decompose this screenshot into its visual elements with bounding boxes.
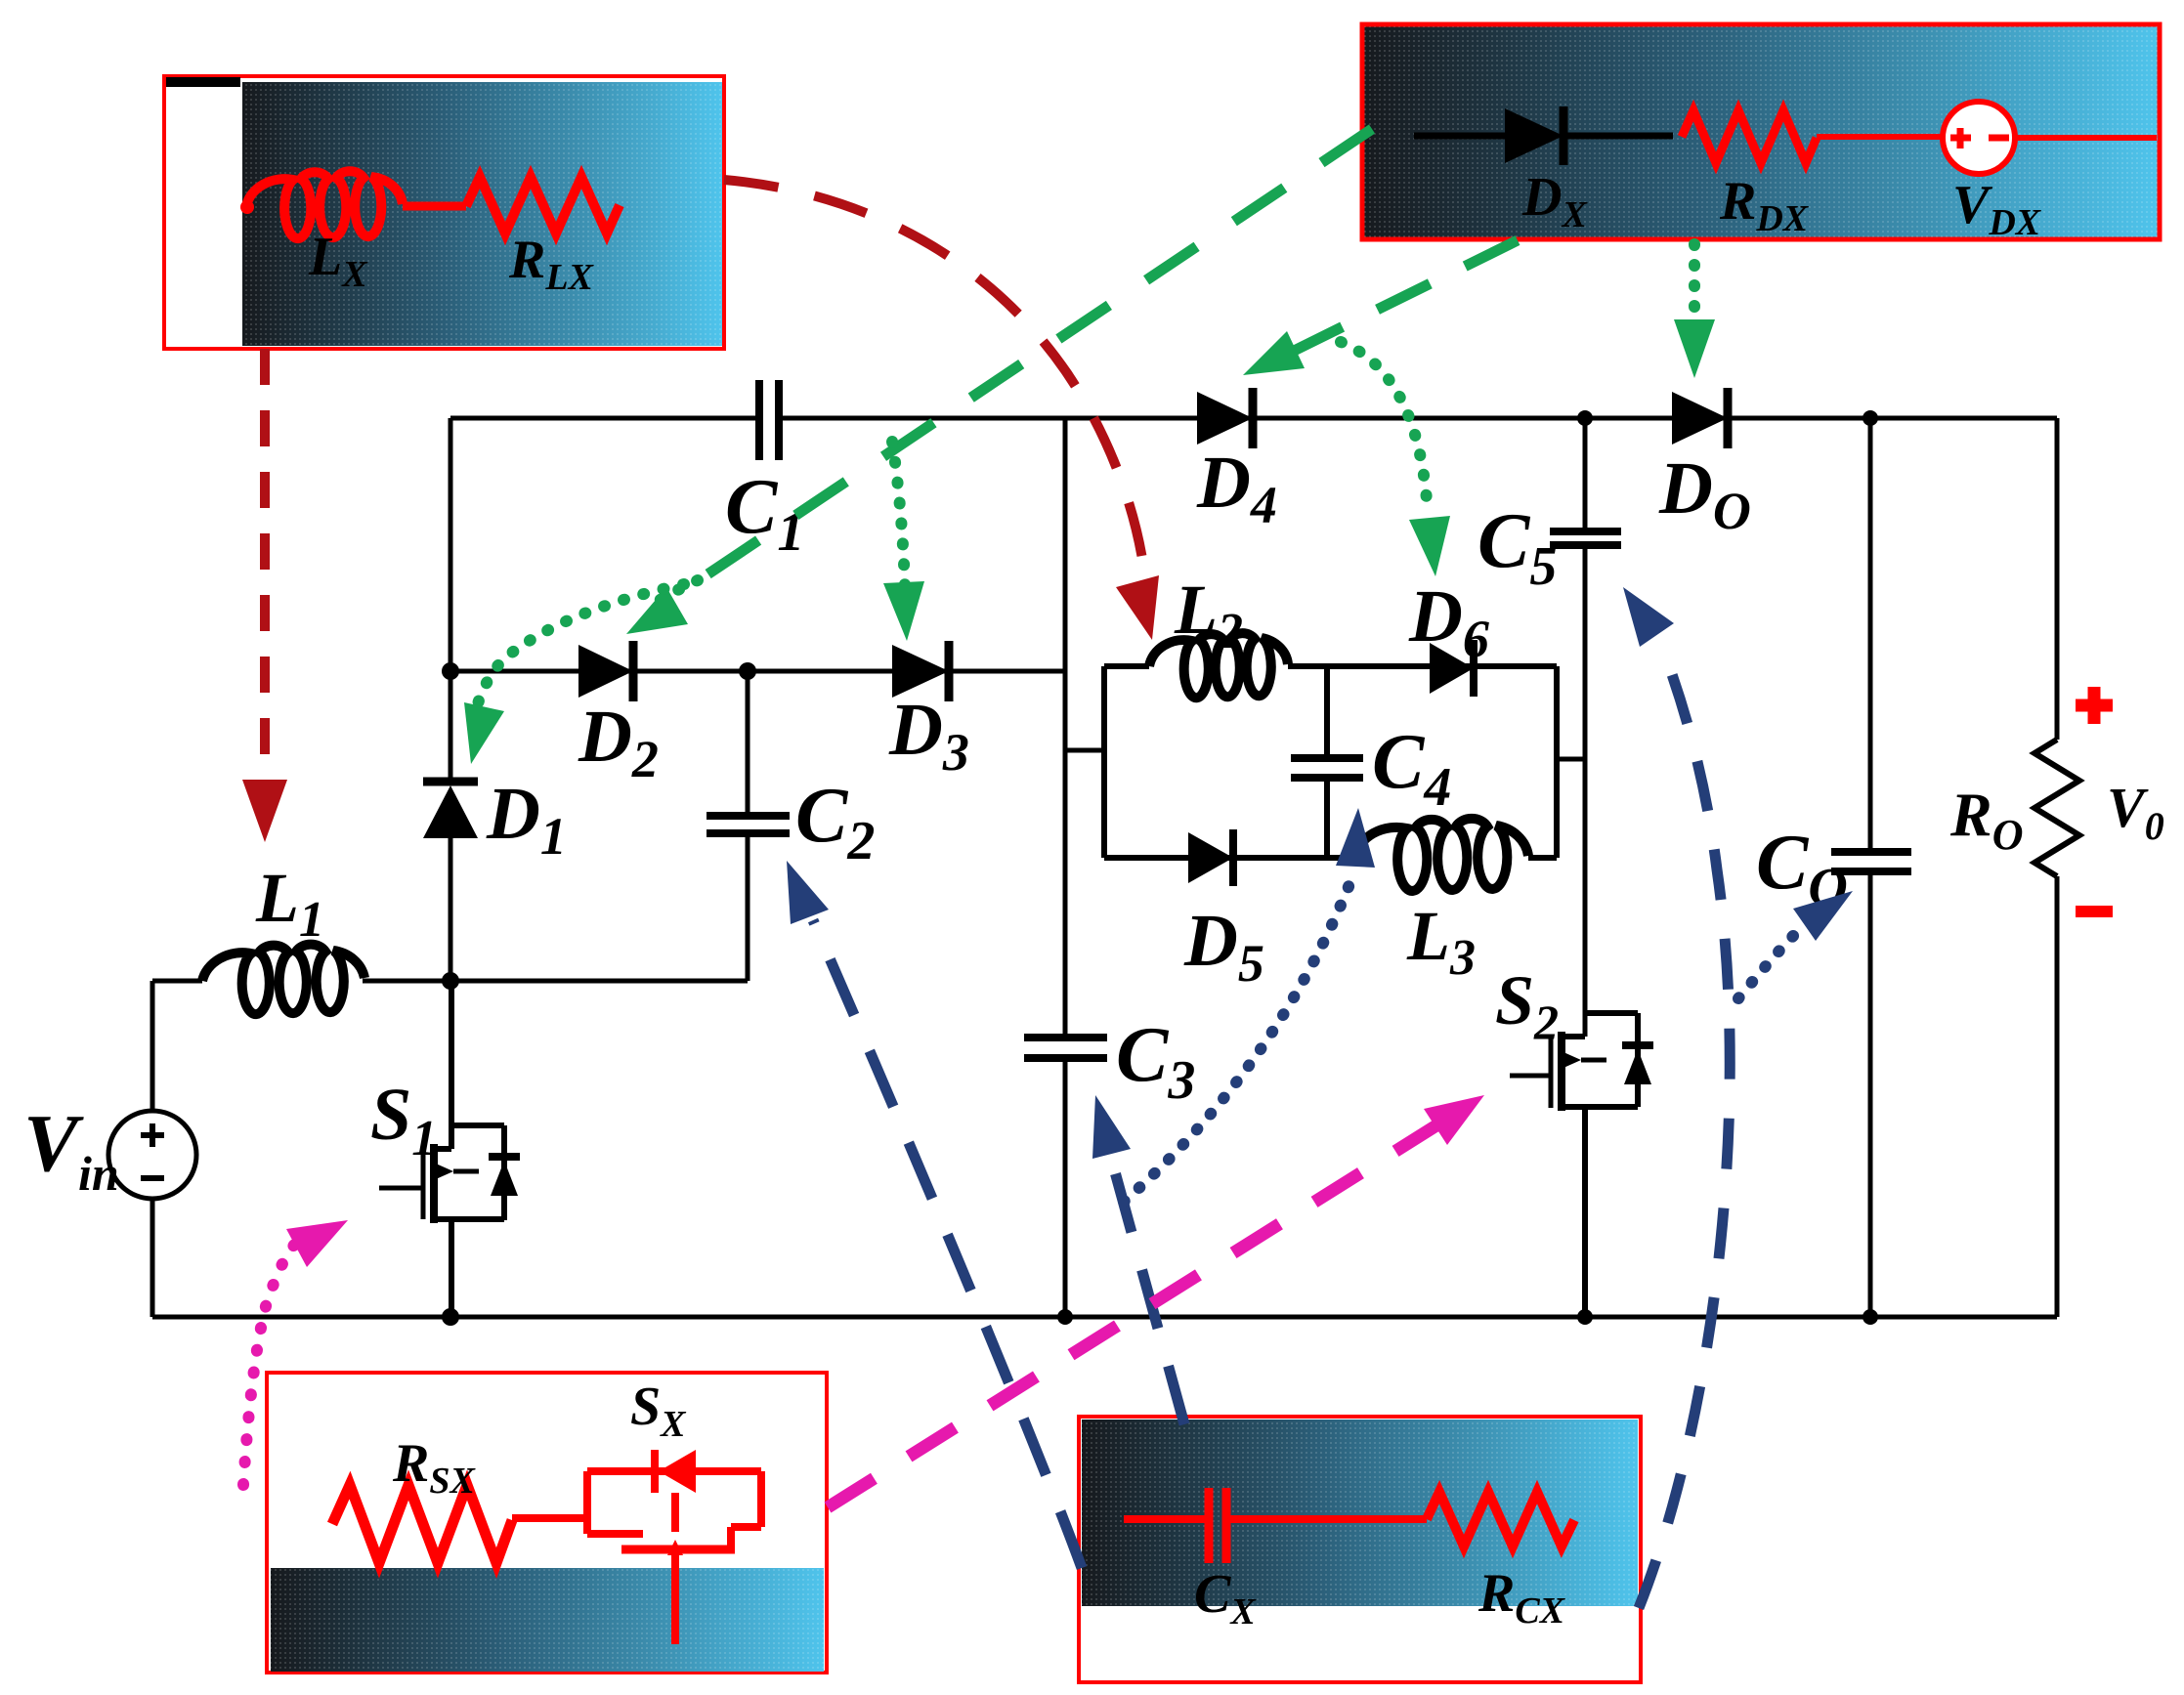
arrow green to D6 <box>1409 516 1450 576</box>
bottom rail wire <box>152 1315 2057 1320</box>
resistor RLX (red, in model box) <box>466 177 620 233</box>
inset box CX/RCX (bottom-center model box) <box>1079 1417 1641 1682</box>
arrow green to D1 <box>464 702 504 764</box>
svg-text:RO: RO <box>1949 780 2023 859</box>
wire stub block to C5/S2 line <box>1557 757 1585 762</box>
inductor L1 <box>202 945 364 1015</box>
block bottom wire <box>1104 855 1557 861</box>
C5/S2 vertical wire <box>1583 418 1588 1037</box>
inset box DX/RDX/VDX (top-right model box) <box>1362 24 2160 239</box>
wire stub middle vertical to L2 block <box>1065 748 1104 753</box>
dashed arrow dark red to L2 <box>724 180 1159 640</box>
node I (Co at bottom rail) <box>1863 1309 1878 1325</box>
dashed arrow navy to C5 <box>1623 587 1730 1608</box>
svg-text:D1: D1 <box>486 773 567 866</box>
svg-text:C3: C3 <box>1116 1012 1195 1111</box>
svg-text:Vin: Vin <box>23 1098 119 1201</box>
diode D5 (on block bottom wire) <box>1188 829 1233 886</box>
diode DX (black, in model box) <box>1414 106 1673 165</box>
Co branch vertical wire <box>1868 418 1873 1317</box>
minus sign output (red) <box>2076 906 2113 917</box>
diode DO (output diode on top rail) <box>1672 388 1728 448</box>
left cell left vertical wire <box>449 418 453 671</box>
dotted green branch to D3 <box>892 442 906 621</box>
inductor LX (red, in model box) <box>240 171 466 238</box>
node H (top rail to Co) <box>1863 410 1878 426</box>
wire D2/D3 row <box>450 669 1065 674</box>
diode D3 <box>892 641 949 701</box>
node D (S1 source at bottom rail) <box>442 1308 459 1326</box>
svg-text:L3: L3 <box>1406 897 1476 986</box>
inductor L2 <box>1149 633 1288 698</box>
svg-text:DO: DO <box>1658 447 1751 540</box>
node G (S2 source at bottom rail) <box>1577 1309 1593 1325</box>
node A (D2 anode junction) <box>442 662 459 680</box>
diode D4 (on top rail) <box>1197 388 1253 448</box>
node B (D2/D3 junction) <box>739 662 756 680</box>
svg-text:D4: D4 <box>1196 442 1277 534</box>
switch SX (red MOSFET with body diode) <box>587 1450 761 1644</box>
right edge wire with RO <box>2055 418 2060 1317</box>
diode D1 (vertical) <box>423 671 478 981</box>
resistor RCX (red, in model box) <box>1427 1492 1574 1547</box>
inset box SX/RSX (bottom-left model box) <box>267 1373 827 1673</box>
dashed magenta arrow to S2 <box>828 1095 1484 1507</box>
arrow green to D3 <box>883 581 924 641</box>
svg-text:C1: C1 <box>725 464 804 563</box>
capacitor C2 branch <box>707 671 790 981</box>
dotted green branch to D2 <box>657 580 698 602</box>
inset box LX/RLX (top-left model box) <box>164 76 724 349</box>
inductor L1 row wire <box>152 979 748 984</box>
dotted green branch to D1 <box>471 584 684 738</box>
dotted green branch to DO <box>1689 244 1700 313</box>
svg-text:L2: L2 <box>1174 571 1243 659</box>
top rail wire <box>450 416 2057 421</box>
source Vin <box>108 981 196 1317</box>
transistor S1 (MOSFET with body diode) <box>379 981 520 1317</box>
dashed arrow navy to C3 <box>1092 1095 1184 1424</box>
dotted green branch to D6 <box>1341 342 1428 513</box>
svg-text:D5: D5 <box>1183 900 1264 993</box>
svg-text:D3: D3 <box>888 689 969 782</box>
inductor L3 <box>1354 819 1528 891</box>
resistor RDX (red, in model box) <box>1682 110 1817 163</box>
capacitor C3 <box>1024 1038 1107 1058</box>
dashed line green from DX box to D4 <box>1280 240 1518 358</box>
svg-text:C4: C4 <box>1372 719 1451 818</box>
diode D6 (on block top wire) <box>1430 640 1474 697</box>
arrow navy to CO <box>1793 891 1853 941</box>
dotted magenta arrow to S1 <box>243 1220 348 1485</box>
capacitor CO <box>1831 852 1911 871</box>
L2/C4/D5/L3 block left vertical <box>1101 666 1107 858</box>
svg-text:D2: D2 <box>578 696 659 788</box>
source VDX (red circle +/-) <box>1943 102 2157 174</box>
capacitor C4 branch <box>1291 666 1363 858</box>
plus sign output (red) <box>2076 687 2113 724</box>
middle vertical wire with C3 <box>1063 418 1068 1317</box>
node C (L1/S1/D1 junction) <box>442 972 459 990</box>
svg-text:V0: V0 <box>2107 776 2164 848</box>
dotted navy branch to CO <box>1738 926 1803 998</box>
svg-text:S2: S2 <box>1495 961 1559 1049</box>
svg-text:L1: L1 <box>255 859 324 948</box>
dashed arrow dark red to L1 <box>242 349 287 842</box>
svg-text:C2: C2 <box>795 773 875 871</box>
svg-text:C5: C5 <box>1477 498 1557 597</box>
wire red to VDX <box>1817 134 1943 140</box>
arrow green to D4 <box>1243 331 1305 375</box>
resistor RO <box>2034 740 2079 876</box>
capacitor CX (red, in model box) <box>1124 1488 1427 1563</box>
arrow green to D2 <box>626 587 688 634</box>
resistor RSX (red, in model box) <box>332 1485 512 1563</box>
dotted navy branch to C4 <box>1124 869 1355 1202</box>
wire to SX gate <box>512 1514 587 1522</box>
diode D2 <box>578 641 633 701</box>
node E (C3 branch at bottom rail) <box>1057 1309 1073 1325</box>
arrow green to DO <box>1674 319 1715 378</box>
transistor S2 (MOSFET with body diode) <box>1510 1013 1653 1317</box>
capacitor C5 <box>1550 531 1621 545</box>
block right vertical <box>1554 666 1560 858</box>
block top wire <box>1104 663 1557 669</box>
svg-text:D6: D6 <box>1408 575 1489 668</box>
capacitor C1 (series in top rail) <box>759 380 779 460</box>
svg-text:S1: S1 <box>370 1074 437 1166</box>
node F (top rail to C5 branch) <box>1577 410 1593 426</box>
dashed line green from DX box to D2/D1/D3 fork <box>702 129 1372 578</box>
arrow navy to C4 <box>1336 808 1375 868</box>
dashed arrow navy to C2 <box>787 861 1082 1568</box>
